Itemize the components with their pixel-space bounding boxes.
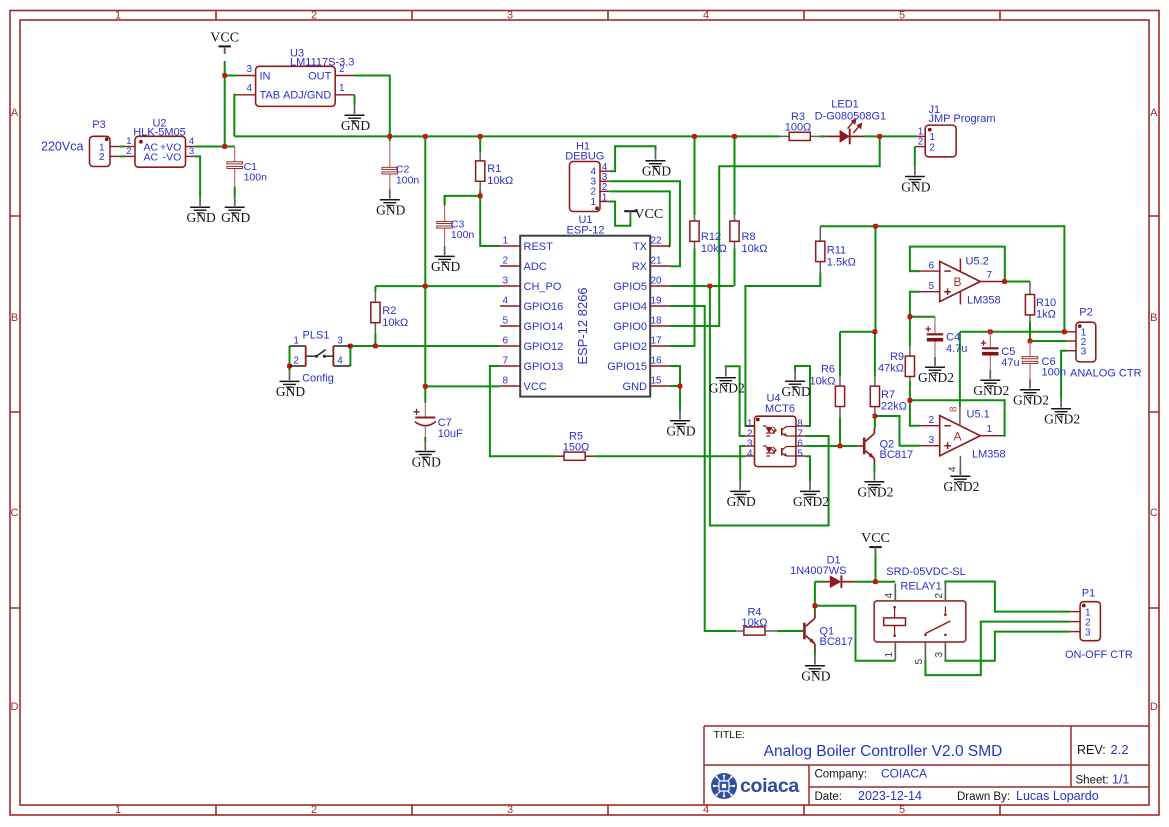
LED LED1 — [815, 99, 887, 145]
power symbol VCC mid (H1 pin1) — [624, 207, 663, 222]
svg-text:8: 8 — [949, 406, 960, 412]
svg-text:4: 4 — [747, 449, 753, 460]
ground GND for H1 pin4 — [642, 151, 671, 179]
svg-text:1: 1 — [339, 83, 345, 94]
svg-text:5: 5 — [502, 316, 508, 327]
wire PLS1 pin2 to GND — [289, 366, 291, 371]
wire U4 pin8 to GND — [795, 366, 810, 426]
svg-text:GND2: GND2 — [1013, 393, 1049, 408]
wire U2 pin3 to GND — [194, 156, 200, 197]
wire R7 top — [874, 332, 876, 377]
junction R6/R7 — [873, 329, 878, 334]
wire U5.1 pin8 power drop — [959, 332, 961, 407]
junction PLS1 pin3 — [348, 344, 353, 349]
svg-text:GND: GND — [276, 384, 305, 399]
wire GPIO4 drop to R4 — [670, 306, 736, 631]
wire Q1 emitter to GND — [814, 650, 816, 656]
wire R2 top — [374, 286, 376, 292]
wire R5 to U4 pin4 — [594, 455, 745, 457]
wire C7 bottom to GND — [424, 437, 426, 441]
junction rail/ESP VCC drop — [423, 134, 428, 139]
connector J1 JMP Program — [915, 104, 996, 167]
svg-text:5: 5 — [928, 281, 934, 292]
junction rail/R12 — [692, 134, 697, 139]
svg-text:C: C — [11, 507, 19, 519]
ground GND under U3 ADJ — [341, 105, 370, 133]
svg-text:TITLE:: TITLE: — [714, 729, 746, 741]
svg-text:A: A — [1150, 107, 1158, 119]
svg-text:Date:: Date: — [815, 791, 843, 803]
transistor Q1 BC817 — [803, 612, 853, 650]
svg-text:100n: 100n — [451, 229, 475, 241]
ground GND under U4 pin3 — [727, 481, 756, 509]
junction GPIO5 drop — [708, 284, 713, 289]
svg-text:ADJ/GND: ADJ/GND — [283, 90, 331, 102]
svg-text:22: 22 — [651, 236, 663, 247]
resistor R1 — [476, 152, 514, 191]
svg-text:-VO: -VO — [163, 152, 182, 164]
switch PLS1 — [290, 330, 351, 385]
op-amp U5.2 — [920, 256, 1002, 307]
svg-text:Lucas Lopardo: Lucas Lopardo — [1016, 789, 1099, 803]
svg-text:5: 5 — [914, 659, 925, 665]
wire U4 pin3 to GND — [740, 446, 745, 481]
wire R8 bottom to GPIO5 line — [734, 249, 736, 287]
svg-text:B: B — [11, 312, 18, 324]
svg-text:21: 21 — [651, 256, 663, 267]
junction U2.4/C1/VCC — [222, 144, 227, 149]
svg-text:220Vca: 220Vca — [41, 140, 83, 154]
svg-text:LM1117S-3.3: LM1117S-3.3 — [290, 57, 354, 69]
svg-text:GND: GND — [901, 179, 930, 194]
junction R6/Q2 base — [838, 444, 843, 449]
wire U5.1 feedback to output — [910, 400, 1005, 435]
wire D1 anode from Q1 collector — [814, 582, 816, 612]
svg-text:100n: 100n — [244, 172, 268, 184]
svg-text:P1: P1 — [1082, 588, 1095, 600]
svg-text:4: 4 — [246, 83, 252, 94]
capacitor C5 47u — [981, 332, 1020, 370]
ground GND2 under U5.1 pin4 — [943, 466, 979, 494]
ground GND under U4 pin8 — [781, 371, 810, 399]
svg-text:A: A — [11, 107, 19, 119]
svg-text:R11: R11 — [827, 245, 846, 257]
svg-text:CH_PO: CH_PO — [524, 281, 562, 293]
svg-text:18: 18 — [651, 316, 663, 327]
ground GND2 under C4 — [918, 357, 954, 385]
wire H1.1 to VCC — [610, 202, 631, 226]
svg-text:R10: R10 — [1036, 297, 1056, 309]
svg-text:D: D — [1150, 701, 1158, 713]
capacitor C3 — [437, 205, 475, 246]
svg-text:GND: GND — [431, 259, 460, 274]
svg-text:R8: R8 — [742, 231, 756, 243]
junction rail/R8 — [732, 134, 737, 139]
svg-text:SRD-05VDC-SL: SRD-05VDC-SL — [886, 566, 965, 578]
ground GND under ESP pin15 — [666, 411, 695, 439]
ground GND2 under U4 pin5 — [793, 481, 829, 509]
svg-text:GND2: GND2 — [973, 383, 1009, 398]
ground GND under C2 — [376, 190, 405, 218]
svg-text:2: 2 — [311, 804, 317, 816]
wire GPIO0 up to J1 node — [670, 136, 880, 326]
svg-text:10kΩ: 10kΩ — [701, 243, 727, 255]
svg-text:3: 3 — [507, 9, 513, 21]
resistor R11 — [816, 226, 856, 272]
op-amp U5.1 — [920, 406, 1005, 472]
svg-text:COIACA: COIACA — [881, 767, 927, 781]
connector H1 DEBUG — [565, 141, 609, 212]
wire C3 top green — [444, 196, 446, 206]
svg-text:GND2: GND2 — [918, 370, 954, 385]
connector P2 ANALOG CTR — [1067, 307, 1142, 380]
svg-text:C4: C4 — [946, 332, 960, 344]
junction rail/R1 — [478, 134, 483, 139]
resistor R6 — [810, 364, 845, 418]
svg-text:R1: R1 — [487, 163, 501, 175]
svg-text:GND: GND — [623, 381, 648, 393]
svg-text:4: 4 — [703, 9, 709, 21]
svg-text:2023-12-14: 2023-12-14 — [858, 789, 922, 803]
svg-text:D-G080508G1: D-G080508G1 — [815, 111, 887, 123]
junction Q1 collector/D1 — [813, 603, 818, 608]
svg-text:3: 3 — [189, 146, 194, 157]
svg-text:1: 1 — [502, 236, 508, 247]
svg-text:47u: 47u — [1001, 357, 1019, 369]
svg-text:GPIO12: GPIO12 — [524, 341, 564, 353]
svg-text:4: 4 — [948, 466, 959, 472]
wire R9 bottom to feedback node — [910, 382, 921, 426]
svg-text:DEBUG: DEBUG — [565, 151, 604, 163]
svg-text:100Ω: 100Ω — [785, 121, 812, 133]
svg-text:Drawn By:: Drawn By: — [957, 791, 1010, 803]
svg-text:47kΩ: 47kΩ — [878, 363, 904, 375]
svg-text:2: 2 — [934, 593, 945, 599]
svg-text:GND2: GND2 — [943, 479, 979, 494]
resistor R4 — [736, 607, 777, 636]
svg-text:GND: GND — [221, 210, 250, 225]
ground GND2 under C5 — [973, 370, 1009, 398]
capacitor C7 10uF — [414, 403, 464, 440]
svg-text:1.5kΩ: 1.5kΩ — [827, 257, 856, 269]
svg-text:GND2: GND2 — [857, 485, 893, 500]
wire P3 to U2 pin2 — [119, 155, 125, 157]
svg-text:3: 3 — [507, 804, 513, 816]
ground GND2 near U4 pin2 — [709, 368, 745, 396]
svg-text:2: 2 — [99, 152, 105, 163]
wire R6 R7 node — [840, 331, 876, 333]
svg-text:GPIO4: GPIO4 — [613, 301, 647, 313]
junction VCC/U3.IN — [222, 73, 227, 78]
wire R8 top — [734, 136, 736, 215]
module U1 ESP-12 8266 — [500, 214, 670, 397]
wire R6 bottom to base line — [839, 417, 841, 446]
wire CH_PO line — [375, 285, 500, 287]
svg-text:ANALOG CTR: ANALOG CTR — [1070, 368, 1142, 380]
svg-text:GND: GND — [412, 454, 441, 469]
wire C1 bottom green — [234, 187, 236, 197]
wire H1.2 to ESP TX — [610, 191, 670, 246]
wire U5.2 pin6 feedback loop — [910, 247, 1005, 282]
junction R7/Q2/U5.1 pin3 — [873, 414, 878, 419]
resistor R9 — [878, 346, 914, 381]
capacitor C2 — [382, 141, 419, 190]
wire R2 bottom — [374, 334, 376, 347]
wire relay pin5 to P1 pin2 — [925, 622, 1070, 676]
svg-text:1N4007WS: 1N4007WS — [790, 565, 846, 577]
svg-text:22kΩ: 22kΩ — [881, 401, 907, 413]
svg-text:ESP-12 8266: ESP-12 8266 — [575, 287, 590, 364]
ground GND2 under P2 pin3 — [1044, 399, 1080, 427]
svg-text:2: 2 — [928, 415, 934, 426]
wire R4 to Q1 base — [777, 630, 803, 632]
svg-text:R12: R12 — [701, 231, 721, 243]
svg-text:1: 1 — [293, 336, 299, 347]
capacitor C1 — [227, 147, 267, 187]
svg-text:GND: GND — [801, 669, 830, 684]
wire U4 pin5 to GND2 — [805, 456, 810, 481]
svg-text:GPIO2: GPIO2 — [613, 341, 647, 353]
wire U3 IN stub link — [225, 75, 237, 77]
svg-text:100n: 100n — [396, 174, 420, 186]
connector P1 ON-OFF CTR — [1065, 588, 1133, 661]
svg-text:RX: RX — [632, 261, 648, 273]
svg-text:BC817: BC817 — [880, 449, 914, 461]
svg-text:LED1: LED1 — [831, 99, 859, 111]
svg-text:GND2: GND2 — [1044, 412, 1080, 427]
diode D1 1N4007WS — [790, 555, 854, 589]
svg-text:19: 19 — [651, 296, 663, 307]
resistor R3 — [780, 111, 820, 141]
svg-text:10kΩ: 10kΩ — [742, 617, 768, 629]
svg-text:B: B — [1150, 312, 1157, 324]
svg-text:3: 3 — [1085, 628, 1091, 639]
wire U3 ADJ to GND — [354, 95, 356, 105]
svg-text:GPIO5: GPIO5 — [613, 281, 647, 293]
svg-text:3: 3 — [934, 652, 945, 658]
svg-text:GND: GND — [781, 384, 810, 399]
relay RELAY1 SRD-05VDC-SL — [874, 566, 966, 665]
svg-text:3: 3 — [337, 336, 343, 347]
wire R12 top — [694, 136, 696, 215]
svg-text:C7: C7 — [438, 417, 452, 429]
svg-text:P2: P2 — [1079, 307, 1092, 319]
svg-text:GPIO15: GPIO15 — [607, 361, 647, 373]
svg-text:RELAY1: RELAY1 — [900, 580, 941, 592]
svg-text:MCT6: MCT6 — [765, 403, 795, 415]
junction R9/U5.1 feedback — [908, 398, 913, 403]
svg-text:20: 20 — [651, 276, 663, 287]
wire PLS1 right loop — [349, 346, 351, 366]
svg-text:3: 3 — [1081, 347, 1087, 358]
svg-text:TAB: TAB — [260, 90, 281, 102]
svg-text:4: 4 — [703, 804, 709, 816]
svg-text:AC: AC — [144, 152, 159, 164]
wire R6 top — [839, 332, 841, 377]
svg-text:8: 8 — [502, 376, 508, 387]
wire 5V rail U2.4 to C1/VCC — [194, 146, 234, 148]
power module U2 HLK-5M05 — [125, 118, 194, 168]
svg-text:4: 4 — [502, 296, 508, 307]
wire U4 pin6 to Q2 base — [805, 445, 857, 447]
svg-text:GPIO14: GPIO14 — [524, 321, 564, 333]
wire U3 OUT down to 3.3V rail — [355, 76, 390, 137]
svg-text:REST: REST — [524, 241, 554, 253]
wire Q2 node to U5.1 pin3 — [875, 416, 921, 446]
resistor R2 — [371, 292, 408, 333]
junction C5 on P2.1 line — [988, 329, 993, 334]
svg-text:P3: P3 — [92, 119, 105, 131]
wire D1 cathode to relay pin4 — [854, 581, 895, 583]
ground GND under C1 — [221, 197, 250, 225]
resistor R10 — [1025, 282, 1056, 323]
ground GND under Q1 — [801, 656, 830, 684]
svg-text:GPIO16: GPIO16 — [524, 301, 564, 313]
wire Q1 collector to relay pin1 — [815, 606, 895, 661]
svg-text:2: 2 — [293, 355, 299, 366]
ground GND2 under C6 — [1013, 380, 1049, 408]
svg-text:coiaca: coiaca — [740, 775, 799, 797]
optocoupler U4 MCT6 — [745, 393, 805, 467]
power symbol VCC top-left — [210, 30, 239, 54]
svg-text:VCC: VCC — [210, 30, 239, 45]
svg-text:5: 5 — [797, 449, 803, 460]
svg-text:3: 3 — [246, 64, 252, 75]
wire VCC vertical to U3 IN — [224, 61, 226, 147]
wire relay pin2 to P1 pin1 — [945, 582, 1070, 612]
svg-text:GPIO0: GPIO0 — [613, 321, 647, 333]
svg-text:D: D — [11, 701, 19, 713]
transistor Q2 BC817 — [857, 428, 913, 464]
wire relay pin3 to P1 pin3 — [945, 632, 1070, 661]
svg-text:LM358: LM358 — [967, 295, 1001, 307]
svg-text:R7: R7 — [881, 389, 895, 401]
svg-text:R2: R2 — [382, 305, 396, 317]
svg-text:2: 2 — [918, 137, 924, 148]
wire GPIO12 line to PLS1 — [350, 345, 500, 347]
svg-text:JMP Program: JMP Program — [929, 113, 996, 125]
wire H1.3 to ESP RX — [610, 181, 680, 266]
svg-text:ADC: ADC — [524, 261, 547, 273]
wire GPIO5 line — [670, 285, 734, 287]
svg-text:REV:: REV: — [1077, 743, 1106, 757]
wire rail segment LED to J1 — [864, 135, 917, 137]
wire D1 left link — [815, 581, 826, 583]
junction ESP GND/GPIO15 — [678, 384, 683, 389]
ground GND for J1 pin2 — [901, 166, 930, 194]
coiaca logo — [711, 773, 799, 799]
wire rail drop to ESP VCC and C7 — [424, 136, 426, 402]
svg-text:16: 16 — [651, 356, 663, 367]
svg-text:1: 1 — [987, 424, 993, 435]
ground GND under PLS1 — [276, 371, 305, 399]
svg-text:C: C — [1150, 507, 1158, 519]
wire R1 bottom to ESP REST — [480, 190, 500, 246]
resistor R7 — [870, 377, 907, 415]
svg-text:Sheet:: Sheet: — [1076, 775, 1109, 787]
capacitor C6 100n — [1022, 341, 1066, 380]
svg-text:100n: 100n — [1042, 366, 1066, 378]
svg-text:3: 3 — [928, 435, 934, 446]
svg-text:GND: GND — [727, 494, 756, 509]
svg-text:Config: Config — [302, 372, 334, 384]
svg-text:LM358: LM358 — [972, 449, 1006, 461]
wire R11 top rail to P2 drop — [820, 226, 1064, 332]
svg-text:2: 2 — [126, 146, 131, 157]
wire ESP VCC pin8 — [425, 385, 500, 387]
wire GPIO15 and ESP GND to ground — [670, 366, 680, 411]
wire rail segment R3 to LED — [820, 135, 826, 137]
svg-text:GND: GND — [186, 210, 215, 225]
junction rail drop/ESP VCC — [423, 384, 428, 389]
junction rail drop/CH_PO — [423, 284, 428, 289]
svg-text:PLS1: PLS1 — [303, 330, 330, 342]
svg-text:10kΩ: 10kΩ — [810, 376, 836, 388]
svg-text:GND: GND — [642, 164, 671, 179]
title block — [704, 726, 1149, 805]
ground GND under C7 — [412, 441, 441, 469]
svg-text:VCC: VCC — [861, 531, 890, 546]
svg-text:1: 1 — [884, 652, 895, 658]
ground GND2 under Q2 — [857, 472, 893, 500]
svg-text:ON-OFF CTR: ON-OFF CTR — [1065, 649, 1133, 661]
svg-text:2: 2 — [929, 142, 935, 153]
junction R10/C6/P2.2 — [1028, 339, 1033, 344]
svg-text:10kΩ: 10kΩ — [742, 243, 768, 255]
svg-text:GND2: GND2 — [793, 494, 829, 509]
svg-text:VCC: VCC — [524, 381, 547, 393]
wire P3 to U2 pin1 — [119, 146, 125, 148]
svg-text:1/1: 1/1 — [1112, 773, 1129, 787]
svg-text:7: 7 — [502, 356, 508, 367]
wire R1 node to C3 — [445, 196, 481, 206]
svg-text:HLK-5M05: HLK-5M05 — [133, 126, 186, 138]
wire C4 branch — [910, 316, 935, 318]
svg-text:10kΩ: 10kΩ — [487, 175, 513, 187]
svg-text:C5: C5 — [1001, 346, 1015, 358]
wire R10 bottom to P2 pin2 and C6 — [1030, 322, 1067, 341]
svg-text:ESP-12: ESP-12 — [567, 225, 605, 237]
wire U4 pin2 to GND2 — [726, 366, 746, 436]
svg-text:4: 4 — [337, 355, 343, 366]
svg-text:A: A — [953, 429, 961, 443]
svg-text:5: 5 — [899, 804, 905, 816]
svg-text:VCC: VCC — [634, 207, 663, 222]
svg-text:IN: IN — [260, 70, 271, 82]
svg-text:R9: R9 — [890, 351, 904, 363]
svg-text:1kΩ: 1kΩ — [1036, 309, 1056, 321]
wire U3 TAB down to rail — [234, 95, 237, 137]
wire R1 top — [479, 136, 481, 151]
svg-text:GND2: GND2 — [709, 381, 745, 396]
svg-text:4.7u: 4.7u — [946, 343, 967, 355]
wire R7 bottom to Q2 collector — [874, 415, 876, 428]
wire GPIO5 drop to U4 pin7 — [710, 286, 829, 526]
junction rail/C2 — [387, 134, 392, 139]
svg-text:15: 15 — [651, 376, 663, 387]
junction D1/VCC/relay — [873, 579, 878, 584]
svg-text:6: 6 — [928, 260, 934, 271]
svg-text:B: B — [953, 275, 961, 289]
junction R1/C3/REST — [478, 194, 483, 199]
junction rail/J1/GPIO0 — [877, 134, 882, 139]
svg-text:5: 5 — [899, 9, 905, 21]
svg-text:3: 3 — [502, 276, 508, 287]
resistor R8 — [730, 215, 768, 255]
wire R12 bottom to GPIO2 — [670, 249, 695, 347]
svg-text:TX: TX — [633, 241, 648, 253]
svg-text:OUT: OUT — [308, 70, 332, 82]
